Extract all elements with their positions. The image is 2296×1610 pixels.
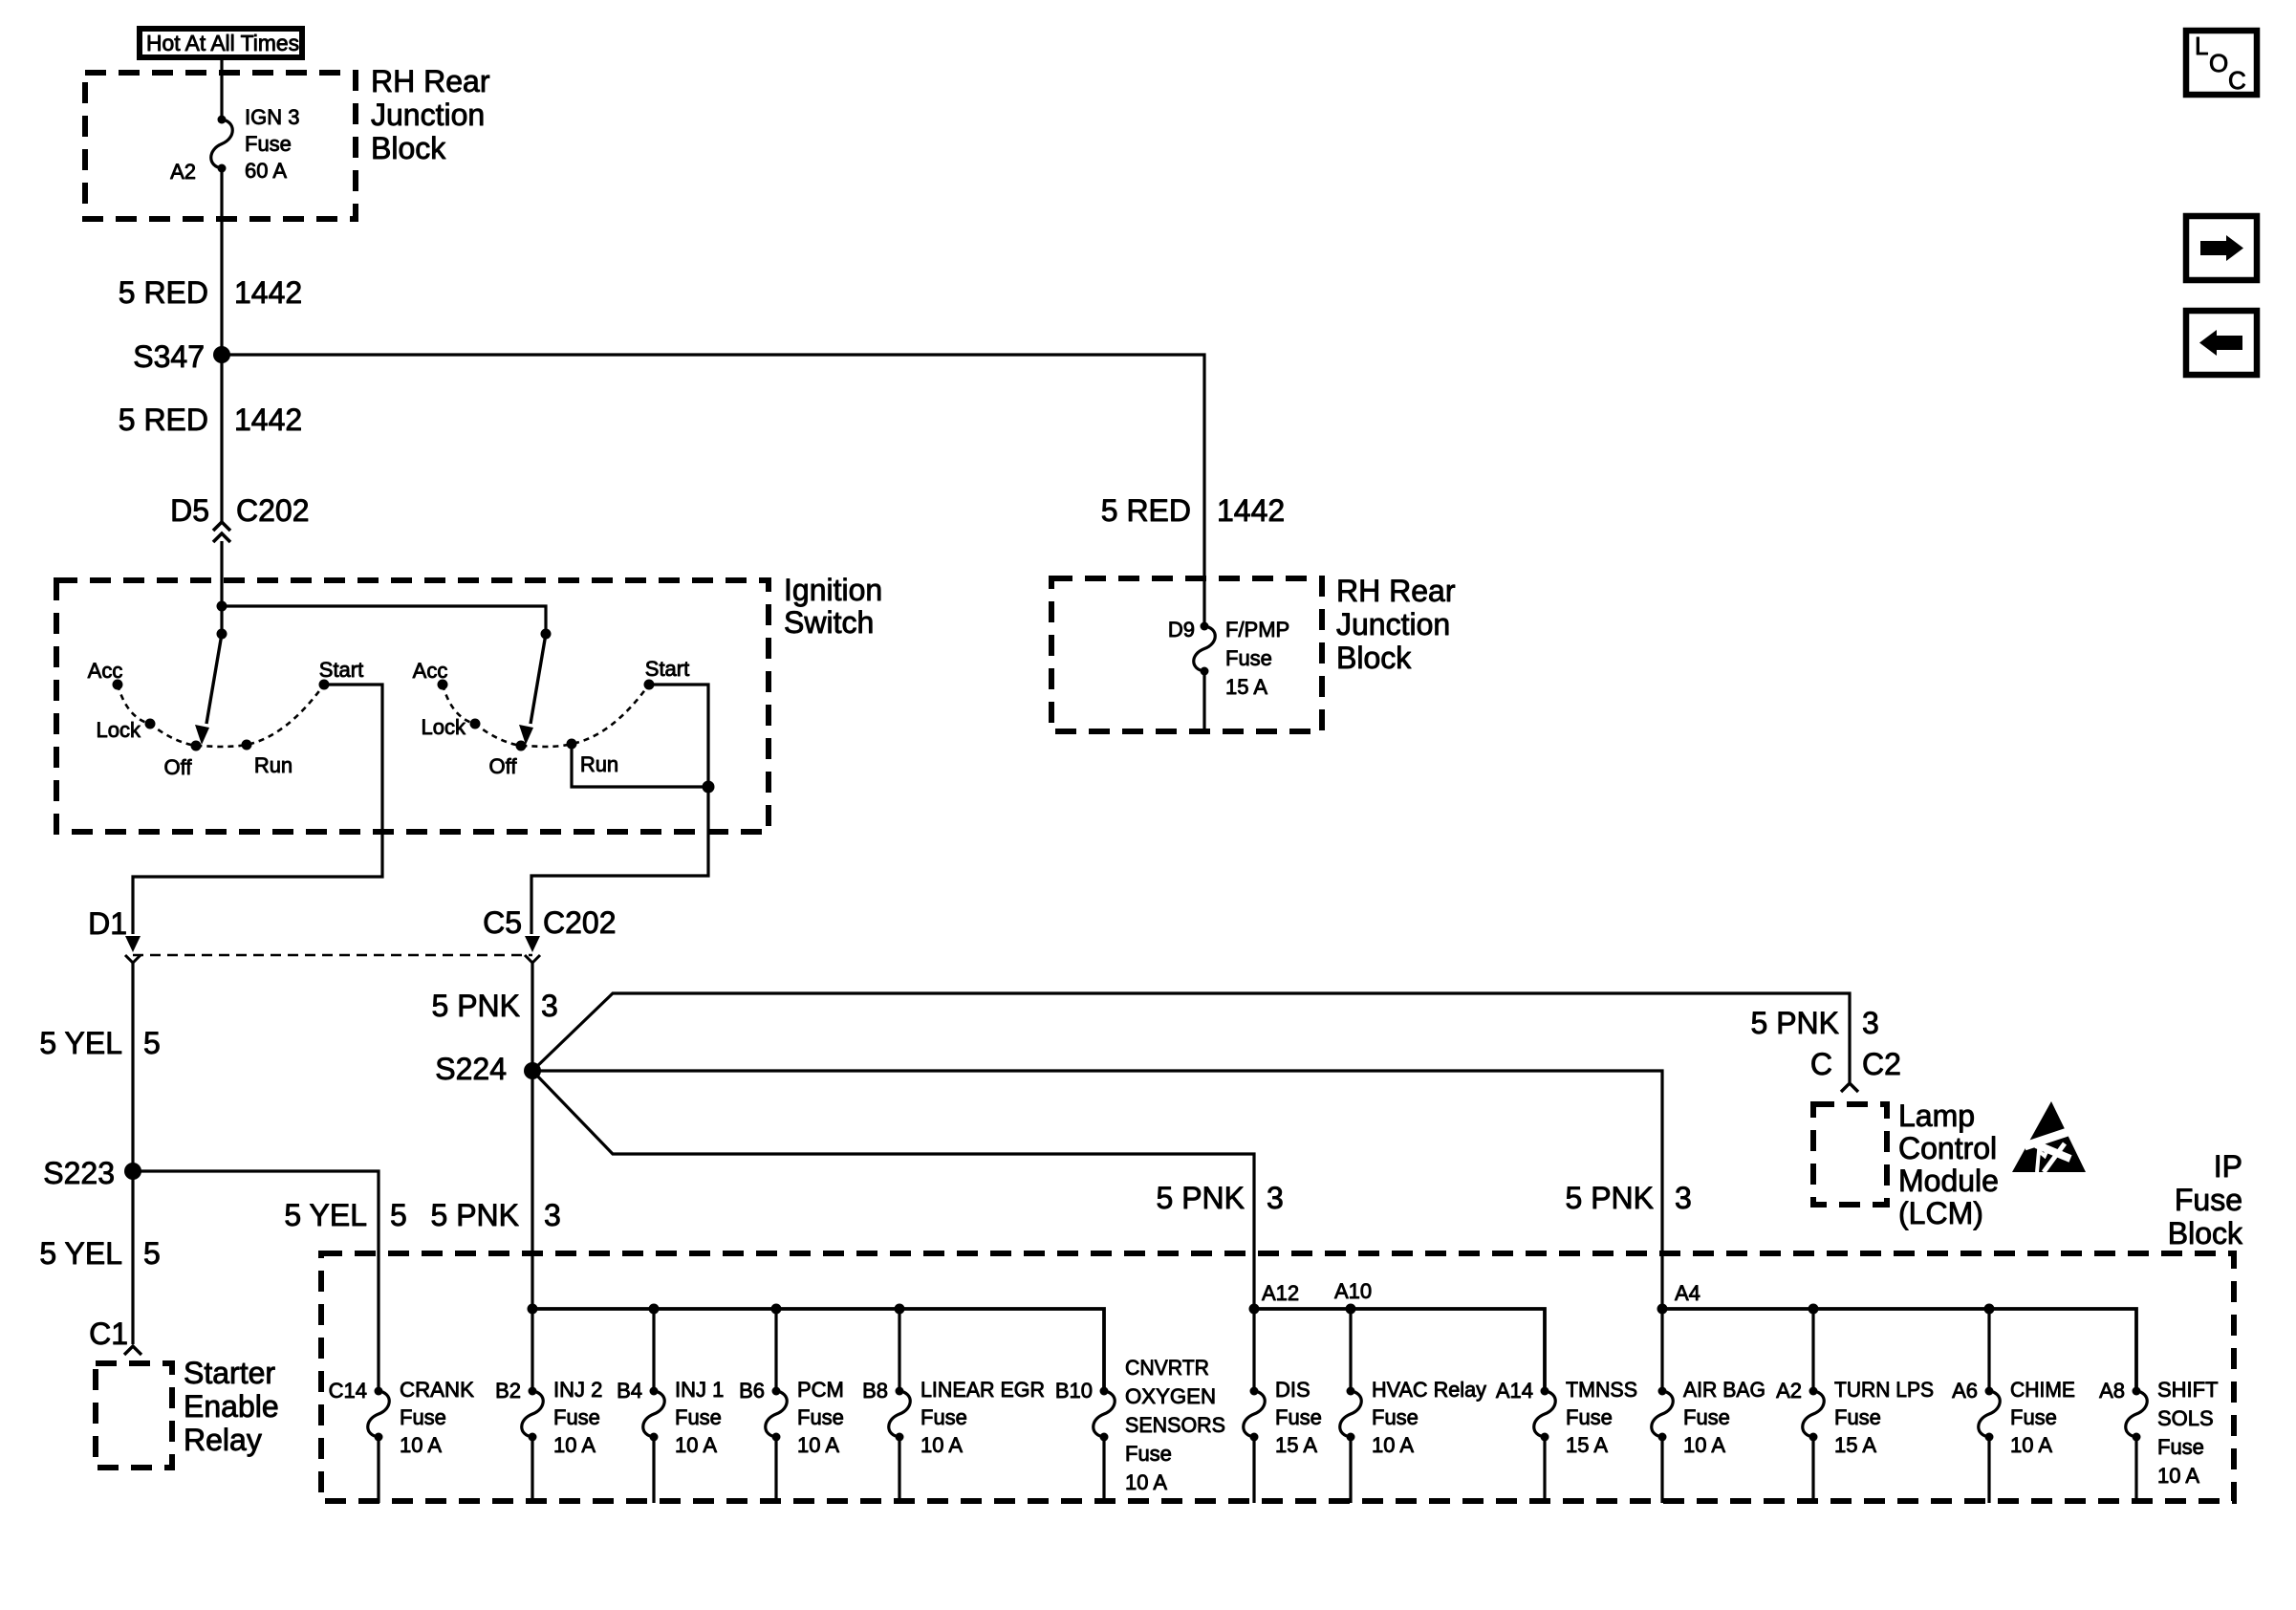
svg-text:10 A: 10 A [2157, 1464, 2199, 1488]
svg-text:Start: Start [319, 658, 363, 682]
svg-text:10 A: 10 A [400, 1433, 442, 1457]
svg-text:3: 3 [1267, 1181, 1284, 1215]
right switch position arc [443, 685, 649, 747]
fuse HVAC Relay [1347, 1387, 1355, 1396]
left switch contact Start [319, 680, 330, 690]
svg-text:Off: Off [489, 754, 518, 778]
svg-text:B2: B2 [495, 1379, 521, 1403]
RH Rear Junction Block (lower) dashed box [1051, 578, 1322, 731]
svg-text:RH Rear: RH Rear [1336, 574, 1456, 608]
svg-text:LINEAR EGR: LINEAR EGR [921, 1378, 1045, 1402]
svg-text:5 PNK: 5 PNK [432, 989, 520, 1023]
svg-text:B8: B8 [862, 1379, 888, 1403]
svg-text:Block: Block [1336, 641, 1412, 675]
wire from Hot At All Times to fuse IGN 3 [220, 60, 223, 120]
splice S223 [124, 1163, 141, 1180]
svg-text:Fuse: Fuse [2175, 1183, 2242, 1217]
Lamp Control Module dashed box [1813, 1104, 1887, 1205]
svg-text:S223: S223 [43, 1156, 115, 1190]
svg-text:Fuse: Fuse [1372, 1405, 1419, 1429]
svg-text:B6: B6 [739, 1379, 765, 1403]
left switch contact Lock [145, 719, 156, 729]
svg-text:Ignition: Ignition [784, 573, 882, 607]
svg-text:RH Rear: RH Rear [371, 64, 490, 98]
svg-text:A14: A14 [1496, 1379, 1533, 1403]
svg-text:AIR BAG: AIR BAG [1683, 1378, 1765, 1402]
fuse F/PMP 15 A [1201, 622, 1209, 631]
right switch contact Off [516, 741, 527, 751]
svg-text:C2: C2 [1862, 1047, 1901, 1081]
svg-text:Acc: Acc [88, 659, 123, 683]
right switch contact Start [644, 680, 655, 690]
svg-text:10 A: 10 A [921, 1433, 963, 1457]
wire S347 to RH rear junction block (lower) [222, 355, 1204, 626]
svg-text:15 A: 15 A [1566, 1433, 1608, 1457]
RH Rear Junction Block (upper) dashed box [85, 73, 356, 219]
fuse CRANK [375, 1387, 383, 1396]
right switch wiper arrow [531, 634, 546, 724]
wire S224 to fuse INJ 2 feed [531, 1071, 533, 1391]
svg-text:10 A: 10 A [797, 1433, 839, 1457]
svg-text:S224: S224 [435, 1052, 507, 1086]
wire S224 to fuse AIR BAG feed [532, 1071, 1662, 1391]
svg-text:Fuse: Fuse [400, 1405, 446, 1429]
svg-text:OXYGEN: OXYGEN [1125, 1384, 1216, 1408]
connector C5 symbol [525, 936, 540, 952]
IP Fuse Block dashed box [321, 1253, 2234, 1501]
node: right switch output junction [703, 781, 715, 794]
svg-text:Fuse: Fuse [1125, 1442, 1172, 1466]
svg-text:B4: B4 [617, 1379, 642, 1403]
wire bus to fuse PCM [774, 1309, 777, 1391]
wire fuse IGN3 to splice S347 [220, 168, 223, 355]
wire S223 to fuse CRANK [133, 1171, 379, 1391]
svg-text:5: 5 [143, 1236, 161, 1271]
svg-text:CHIME: CHIME [2010, 1378, 2075, 1402]
svg-text:5 PNK: 5 PNK [1566, 1181, 1654, 1215]
svg-text:Block: Block [371, 131, 446, 165]
svg-text:5 PNK: 5 PNK [1751, 1006, 1839, 1040]
svg-text:A2: A2 [170, 160, 196, 184]
svg-text:IP: IP [2214, 1149, 2242, 1184]
connector C202 pin D5 symbol [220, 541, 223, 606]
svg-text:Fuse: Fuse [245, 132, 292, 156]
svg-text:TMNSS: TMNSS [1566, 1378, 1637, 1402]
svg-text:3: 3 [1862, 1006, 1879, 1040]
wire left Start to connector D1 [133, 685, 382, 934]
icon: next-page arrow (right) [2186, 216, 2257, 280]
svg-text:Fuse: Fuse [921, 1405, 967, 1429]
svg-text:S347: S347 [133, 339, 205, 374]
splice S347 [213, 346, 230, 363]
svg-text:Fuse: Fuse [797, 1405, 844, 1429]
svg-text:Fuse: Fuse [1683, 1405, 1730, 1429]
icon: LOC reference box [2186, 31, 2257, 95]
svg-text:A12: A12 [1262, 1281, 1299, 1305]
wire S347 to connector D5 [220, 355, 223, 522]
wire S224 to Lamp Control Module [532, 993, 1850, 1082]
svg-text:C5: C5 [483, 905, 522, 940]
svg-text:1442: 1442 [234, 275, 302, 310]
power label box: Hot At All Times [140, 29, 302, 57]
wire fuse F/PMP to block edge [1202, 671, 1205, 732]
svg-text:Starter: Starter [184, 1356, 275, 1390]
node bus dot B8 [895, 1304, 905, 1315]
svg-text:A2: A2 [1776, 1379, 1802, 1403]
wire bus to fuse TURN LPS [1811, 1309, 1814, 1391]
svg-text:5 RED: 5 RED [1101, 493, 1191, 528]
Ignition Switch dashed box [56, 580, 769, 832]
wire bus to fuse LINEAR EGR [898, 1309, 900, 1391]
svg-text:D5: D5 [170, 493, 209, 528]
svg-text:10 A: 10 A [1683, 1433, 1725, 1457]
svg-text:L: L [2195, 32, 2208, 60]
right switch contact Run [567, 739, 577, 750]
fuse TMNSS [1541, 1387, 1549, 1396]
svg-text:INJ 1: INJ 1 [675, 1378, 724, 1402]
wire right Start to Run junction [649, 685, 708, 787]
svg-text:Run: Run [254, 753, 292, 777]
svg-text:5 RED: 5 RED [119, 275, 208, 310]
wire S223 to connector C1 [131, 1171, 134, 1344]
svg-text:5 YEL: 5 YEL [284, 1198, 367, 1232]
right switch contact Acc [438, 680, 448, 690]
svg-text:C: C [2228, 66, 2246, 95]
svg-text:1442: 1442 [234, 402, 302, 437]
svg-text:15 A: 15 A [1275, 1433, 1317, 1457]
svg-text:1442: 1442 [1217, 493, 1285, 528]
svg-text:Off: Off [164, 755, 193, 779]
connector C2 pin C symbol [1841, 1083, 1858, 1092]
connector C1 symbol [124, 1346, 141, 1355]
node bus dot B4 [649, 1304, 660, 1315]
splice S224 [524, 1062, 541, 1079]
svg-text:DIS: DIS [1275, 1378, 1310, 1402]
svg-text:Relay: Relay [184, 1423, 262, 1457]
svg-text:IGN 3: IGN 3 [245, 105, 299, 129]
svg-text:Module: Module [1898, 1164, 1999, 1198]
fuse LINEAR EGR [896, 1387, 904, 1396]
svg-text:SOLS: SOLS [2157, 1406, 2214, 1430]
fuse INJ 1 [650, 1387, 659, 1396]
svg-text:A6: A6 [1952, 1379, 1978, 1403]
bus wire A4-A8 row [1662, 1309, 2136, 1391]
svg-text:10 A: 10 A [553, 1433, 596, 1457]
svg-text:F/PMP: F/PMP [1225, 618, 1289, 642]
svg-text:3: 3 [541, 989, 558, 1023]
bus wire B row [532, 1309, 1104, 1391]
fuse CNVRTR OXYGEN SENSORS [1100, 1387, 1109, 1396]
svg-text:Fuse: Fuse [1225, 646, 1272, 670]
fuse INJ 2 [529, 1387, 537, 1396]
node bus dot A2 [1809, 1304, 1819, 1315]
svg-text:Run: Run [580, 752, 618, 776]
svg-text:5: 5 [390, 1198, 407, 1232]
fuse DIS [1250, 1387, 1259, 1396]
svg-text:Enable: Enable [184, 1389, 279, 1424]
svg-text:3: 3 [1675, 1181, 1692, 1215]
right switch contact Lock [470, 719, 481, 729]
svg-text:Junction: Junction [1336, 607, 1450, 642]
svg-text:15 A: 15 A [1834, 1433, 1876, 1457]
svg-text:Fuse: Fuse [553, 1405, 600, 1429]
svg-text:10 A: 10 A [2010, 1433, 2052, 1457]
node bus dot B2 [528, 1304, 538, 1315]
node bus dot A12 [1249, 1304, 1260, 1315]
svg-text:A4: A4 [1675, 1281, 1700, 1305]
svg-text:C1: C1 [89, 1316, 128, 1351]
svg-text:Fuse: Fuse [1566, 1405, 1613, 1429]
svg-text:D1: D1 [88, 906, 127, 941]
svg-text:Fuse: Fuse [2010, 1405, 2057, 1429]
left switch contact Run [242, 740, 252, 751]
svg-text:HVAC Relay: HVAC Relay [1372, 1378, 1486, 1402]
svg-text:Lamp: Lamp [1898, 1099, 1975, 1133]
wire bus to fuse CHIME [1987, 1309, 1990, 1391]
wire bus to fuse INJ1 [652, 1309, 655, 1391]
svg-text:TURN LPS: TURN LPS [1834, 1378, 1934, 1402]
bus wire A12-A14 row [1254, 1309, 1545, 1391]
svg-text:Fuse: Fuse [675, 1405, 722, 1429]
svg-text:B10: B10 [1055, 1379, 1093, 1403]
fuse SHIFT SOLS [2133, 1387, 2141, 1396]
svg-text:Start: Start [645, 657, 689, 681]
fuse IGN 3 60 A [218, 116, 227, 124]
node bus dot A6 [1984, 1304, 1995, 1315]
left switch pivot [220, 606, 223, 634]
fuse PCM [772, 1387, 781, 1396]
svg-text:C202: C202 [543, 905, 617, 940]
svg-text:Fuse: Fuse [1834, 1405, 1881, 1429]
svg-text:15 A: 15 A [1225, 675, 1267, 699]
svg-text:A8: A8 [2099, 1379, 2125, 1403]
svg-text:Fuse: Fuse [1275, 1405, 1322, 1429]
svg-text:60 A: 60 A [245, 159, 287, 183]
node: ignition feed junction [217, 601, 227, 612]
wire S224 to fuse DIS feed [532, 1071, 1254, 1391]
svg-text:5 YEL: 5 YEL [39, 1026, 122, 1060]
svg-text:10 A: 10 A [1372, 1433, 1414, 1457]
svg-text:5: 5 [143, 1026, 161, 1060]
svg-text:Lock: Lock [422, 715, 466, 739]
svg-text:C: C [1810, 1047, 1832, 1081]
svg-text:5 PNK: 5 PNK [431, 1198, 519, 1232]
svg-text:5 PNK: 5 PNK [1157, 1181, 1245, 1215]
svg-text:C14: C14 [329, 1379, 367, 1403]
svg-text:O: O [2209, 49, 2228, 77]
left switch contact Off [191, 741, 202, 751]
svg-text:Fuse: Fuse [2157, 1435, 2204, 1459]
node bus dot B6 [771, 1304, 782, 1315]
wire bus to fuse HVAC Relay [1349, 1309, 1352, 1391]
svg-text:Control: Control [1898, 1131, 1997, 1165]
fuse AIR BAG [1658, 1387, 1667, 1396]
svg-text:PCM: PCM [797, 1378, 844, 1402]
left switch wiper arrow [206, 634, 222, 724]
node bus dot A10 [1346, 1304, 1356, 1315]
left switch contact Acc [113, 680, 123, 690]
Starter Enable Relay dashed box [96, 1363, 172, 1468]
left switch position arc [118, 685, 324, 747]
svg-text:INJ 2: INJ 2 [553, 1378, 602, 1402]
svg-text:SHIFT: SHIFT [2157, 1378, 2219, 1402]
connector D1 symbol [125, 936, 141, 952]
wire right Run to junction [572, 744, 708, 787]
svg-text:Switch: Switch [784, 605, 874, 640]
fuse CHIME [1985, 1387, 1994, 1396]
node bus dot A4 [1657, 1304, 1668, 1315]
wire right switch output to connector C5 [531, 787, 708, 934]
svg-text:A10: A10 [1334, 1279, 1372, 1303]
svg-text:C202: C202 [236, 493, 310, 528]
fuse TURN LPS [1809, 1387, 1818, 1396]
svg-text:CRANK: CRANK [400, 1378, 474, 1402]
svg-text:CNVRTR: CNVRTR [1125, 1356, 1209, 1380]
wire ignition feed to right switch pivot [222, 606, 546, 634]
svg-text:(LCM): (LCM) [1898, 1196, 1983, 1230]
svg-text:Block: Block [2168, 1216, 2243, 1251]
svg-text:D9: D9 [1168, 618, 1195, 642]
svg-text:Lock: Lock [97, 718, 141, 742]
connector C202 dashed body line [133, 954, 532, 956]
svg-text:Junction: Junction [371, 98, 485, 132]
svg-text:SENSORS: SENSORS [1125, 1413, 1225, 1437]
icon: previous-page arrow (left) [2186, 311, 2257, 375]
svg-text:5 YEL: 5 YEL [39, 1236, 122, 1271]
svg-text:Hot At All Times: Hot At All Times [146, 31, 299, 55]
svg-text:Acc: Acc [413, 659, 448, 683]
svg-text:3: 3 [544, 1198, 561, 1232]
svg-text:10 A: 10 A [1125, 1470, 1167, 1494]
svg-text:10 A: 10 A [675, 1433, 717, 1457]
ESD sensitivity symbol [2012, 1101, 2086, 1172]
right switch pivot dot [541, 629, 552, 640]
svg-text:5 RED: 5 RED [119, 402, 208, 437]
